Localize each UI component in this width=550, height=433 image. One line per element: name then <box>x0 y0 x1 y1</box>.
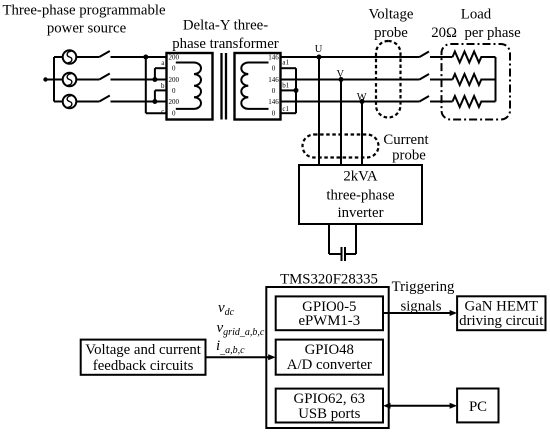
svg-text:probe: probe <box>374 25 408 41</box>
svg-text:b: b <box>161 82 165 90</box>
svg-text:Three-phase programmable: Three-phase programmable <box>2 3 166 19</box>
svg-text:PC: PC <box>469 399 487 415</box>
svg-text:i_a,b,c: i_a,b,c <box>216 338 245 356</box>
svg-text:200: 200 <box>168 53 179 61</box>
svg-text:vdc: vdc <box>218 300 235 318</box>
svg-text:inverter: inverter <box>337 205 383 221</box>
svg-text:c: c <box>161 107 164 115</box>
svg-text:driving circuit: driving circuit <box>459 313 544 329</box>
svg-text:a: a <box>161 59 165 67</box>
svg-text:146: 146 <box>268 53 279 61</box>
svg-text:ePWM1-3: ePWM1-3 <box>298 313 360 329</box>
svg-text:three-phase: three-phase <box>326 188 395 204</box>
svg-text:0: 0 <box>272 87 276 95</box>
svg-text:power source: power source <box>47 20 127 36</box>
svg-text:146: 146 <box>268 76 279 84</box>
svg-text:2kVA: 2kVA <box>343 168 378 184</box>
svg-text:Load: Load <box>461 7 492 23</box>
svg-text:V: V <box>337 69 345 80</box>
svg-text:Triggering: Triggering <box>392 279 455 295</box>
svg-text:signals: signals <box>400 299 441 315</box>
svg-text:Voltage: Voltage <box>369 7 414 23</box>
svg-text:U: U <box>315 44 323 55</box>
svg-text:a1: a1 <box>282 58 289 66</box>
svg-text:200: 200 <box>168 98 179 106</box>
svg-text:A/D converter: A/D converter <box>287 357 372 373</box>
svg-text:20Ω per phase: 20Ω per phase <box>431 25 521 41</box>
svg-text:USB ports: USB ports <box>298 406 360 422</box>
svg-text:200: 200 <box>168 76 179 84</box>
svg-text:Delta-Y three-: Delta-Y three- <box>183 18 268 34</box>
svg-text:b1: b1 <box>282 82 290 90</box>
svg-text:0: 0 <box>172 87 176 95</box>
svg-text:feedback circuits: feedback circuits <box>93 358 194 374</box>
svg-text:0: 0 <box>172 65 176 73</box>
svg-text:Voltage and current: Voltage and current <box>85 342 201 358</box>
svg-text:TMS320F28335: TMS320F28335 <box>280 271 378 287</box>
svg-text:146: 146 <box>268 98 279 106</box>
svg-text:phase transformer: phase transformer <box>172 36 278 52</box>
svg-text:GPIO48: GPIO48 <box>305 342 354 358</box>
svg-text:0: 0 <box>172 109 176 117</box>
svg-text:vgrid_a,b,c: vgrid_a,b,c <box>217 320 265 338</box>
svg-text:0: 0 <box>272 65 276 73</box>
svg-text:probe: probe <box>392 148 426 164</box>
svg-text:Current: Current <box>383 132 429 148</box>
svg-text:GPIO62, 63: GPIO62, 63 <box>294 391 366 407</box>
svg-text:W: W <box>357 92 367 103</box>
svg-text:0: 0 <box>272 109 276 117</box>
svg-text:c1: c1 <box>282 105 289 113</box>
